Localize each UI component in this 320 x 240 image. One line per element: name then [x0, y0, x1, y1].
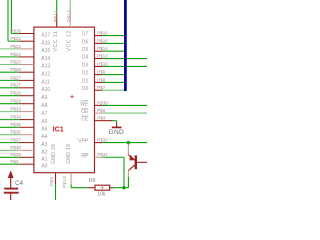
transistor emitter lead [127, 171, 129, 177]
wire net P$38 [0, 149, 19, 151]
wire net D3 through bus [102, 65, 147, 67]
ground bar [112, 126, 122, 128]
wire net P$22 vertical [7, 0, 9, 41]
pin P$29 (A8) stub [19, 103, 34, 105]
pin P$11 (VCC1) stub [56, 14, 58, 28]
wire net P$3 [0, 163, 19, 165]
svg-text:A3: A3 [41, 142, 47, 148]
svg-text:P$19: P$19 [10, 28, 21, 33]
svg-text:P$13: P$13 [97, 53, 108, 58]
svg-text:A15: A15 [41, 48, 50, 54]
pin P$35 (A5) stub [19, 126, 34, 128]
capacitor C4 lead upper [10, 177, 12, 188]
pin P$16 (D7) stub [95, 35, 103, 37]
svg-text:A5: A5 [41, 127, 47, 133]
wire net P$26 [0, 71, 19, 73]
svg-text:P$33: P$33 [10, 107, 21, 112]
svg-text:P$25: P$25 [10, 59, 21, 64]
svg-text:CE: CE [81, 117, 89, 123]
wire emitter down [127, 177, 129, 188]
wire net P$36 [0, 134, 19, 136]
svg-text:P$38: P$38 [10, 145, 21, 150]
wire net P$39 [0, 156, 19, 158]
svg-text:P$15: P$15 [97, 38, 108, 43]
svg-text:P$27: P$27 [10, 75, 21, 80]
svg-text:R9: R9 [89, 178, 96, 184]
svg-text:VCC 12: VCC 12 [67, 30, 73, 51]
overbar OE [82, 107, 89, 109]
bus [124, 0, 127, 91]
svg-text:VCC 11: VCC 11 [53, 31, 59, 52]
svg-text:A9: A9 [41, 95, 47, 101]
pin P$31 (RP) stub [95, 156, 103, 158]
svg-text:D4: D4 [82, 55, 89, 61]
capacitor C4 plate 1 [4, 188, 18, 190]
wire net D7 to bus [102, 35, 125, 37]
wire net P$24 [0, 56, 19, 58]
svg-text:A6: A6 [41, 119, 47, 125]
pin P$23 (A15) stub [19, 48, 34, 50]
svg-text:A16: A16 [41, 40, 50, 46]
ground supply pin [116, 122, 118, 127]
pin P$9 (D2) stub [95, 74, 103, 76]
svg-text:P$12: P$12 [67, 10, 72, 22]
svg-text:A11: A11 [41, 80, 50, 86]
transistor collector diagonal [128, 155, 134, 160]
pin P$10 (D3) stub [95, 65, 103, 67]
svg-text:P$9: P$9 [97, 70, 106, 75]
svg-text:P$26: P$26 [10, 67, 21, 72]
wire net VPP [102, 142, 147, 144]
svg-text:P$18: P$18 [62, 176, 67, 188]
svg-text:A4: A4 [41, 134, 47, 140]
wire net VCC2 (faint) [69, 0, 71, 14]
svg-text:2: 2 [0, 181, 1, 187]
wire net P$28 [0, 95, 19, 97]
wire R9 right to junction [113, 187, 124, 189]
pin P$5 (GND) stub [55, 173, 57, 185]
pin P$36 (A4) stub [19, 134, 34, 136]
svg-text:D3: D3 [82, 62, 89, 68]
svg-text:A10: A10 [41, 87, 50, 93]
svg-text:D2: D2 [82, 71, 89, 77]
origin cross IC1 [70, 95, 74, 99]
wire collector to VPP net [127, 143, 129, 145]
svg-text:D7: D7 [82, 32, 89, 38]
svg-text:P$39: P$39 [10, 152, 21, 157]
pin P$38 (A2) stub [19, 149, 34, 151]
svg-text:P$10: P$10 [97, 61, 108, 66]
wire net P$19 [11, 33, 18, 35]
pin P$32 (VPP) stub [95, 142, 103, 144]
svg-text:P$11: P$11 [53, 10, 58, 22]
svg-text:P$24: P$24 [10, 52, 21, 57]
svg-text:P$6: P$6 [97, 108, 106, 113]
resistor R9 left lead [88, 187, 96, 189]
junction node RP/R9/emitter [122, 186, 125, 189]
transistor Q1 collector lead [127, 145, 129, 155]
svg-text:A17: A17 [41, 33, 50, 39]
junction node VPP/collector [127, 141, 130, 144]
wire net D2 to bus [102, 74, 125, 76]
wire net GND down [55, 184, 57, 200]
wire net D4 through bus [102, 58, 147, 60]
svg-text:P$22: P$22 [10, 36, 21, 41]
wire net P$37 [0, 142, 19, 144]
pin P$34 (A6) stub [19, 119, 34, 121]
pin P$28 (A9) stub [19, 95, 34, 97]
svg-text:P$30: P$30 [97, 100, 108, 105]
svg-text:D5: D5 [82, 47, 89, 53]
svg-text:P$7: P$7 [97, 85, 106, 90]
pin P$13 (D4) stub [95, 58, 103, 60]
overbar RP [83, 152, 89, 154]
transistor base lead [137, 161, 147, 163]
IC U1 (IC1) body outline [34, 27, 95, 173]
wire net P$34 [0, 119, 19, 121]
svg-text:P$35: P$35 [10, 122, 21, 127]
svg-text:A14: A14 [41, 56, 50, 62]
wire net P$35 [0, 126, 19, 128]
svg-text:D0: D0 [82, 86, 89, 92]
wire net D1 to bus [102, 81, 125, 83]
pin P$14 (D5) stub [95, 50, 103, 52]
svg-text:A2: A2 [41, 150, 47, 156]
wire net P$23 [0, 48, 19, 50]
wire net WE [102, 104, 147, 106]
pin P$15 (D6) stub [95, 42, 103, 44]
pin P$19 (A17) stub [19, 33, 34, 35]
wire net P$25 [0, 64, 19, 66]
wire net P$33 [0, 111, 19, 113]
capacitor C4 lead lower [10, 194, 12, 200]
svg-text:P$28: P$28 [10, 91, 21, 96]
svg-text:A1: A1 [41, 157, 47, 163]
svg-text:P$16: P$16 [97, 31, 108, 36]
wire down to GND pin [116, 121, 118, 123]
pin P$33 (A7) stub [19, 111, 34, 113]
svg-text:P$14: P$14 [97, 46, 108, 51]
svg-text:GND 26: GND 26 [51, 144, 57, 164]
svg-text:P$8: P$8 [97, 77, 106, 82]
wire net D0 to bus [102, 89, 125, 91]
svg-text:D6: D6 [82, 39, 89, 45]
capacitor C4 plate 2 [4, 192, 19, 194]
transistor arrow [130, 155, 135, 160]
transistor base bar [135, 155, 137, 169]
wire net VCC1 [56, 0, 58, 14]
pin P$7 (D0) stub [95, 89, 103, 91]
supply arrow above C4 [8, 171, 13, 178]
wire net P$17 [0, 87, 19, 89]
svg-text:P$4: P$4 [97, 116, 106, 121]
resistor R9 right lead [110, 187, 114, 189]
svg-text:C4: C4 [15, 180, 24, 187]
svg-text:P$17: P$17 [10, 83, 21, 88]
svg-text:P$32: P$32 [97, 138, 108, 143]
wire to R9 left lead [71, 187, 87, 189]
pin P$4 (CE) stub [95, 120, 113, 122]
svg-text:GND: GND [109, 129, 125, 136]
wire emitter to junction [124, 187, 128, 189]
svg-text:A7: A7 [41, 111, 47, 117]
wire net P$29 [0, 103, 19, 105]
wire net to R9 [70, 184, 72, 188]
svg-text:GND 18: GND 18 [66, 144, 72, 164]
svg-text:A0: A0 [41, 163, 47, 169]
wire net P$19 vertical [10, 0, 12, 34]
svg-text:10k: 10k [97, 192, 106, 198]
wire RP down [123, 157, 125, 187]
wire CE to GND [113, 120, 117, 122]
overbar WE [81, 100, 89, 102]
svg-text:D1: D1 [82, 78, 89, 84]
svg-text:P$3: P$3 [10, 159, 19, 164]
svg-text:OE: OE [81, 109, 89, 115]
wire net D5 to bus [102, 50, 125, 52]
svg-text:IC1: IC1 [53, 125, 64, 134]
svg-text:RP: RP [81, 153, 89, 159]
origin cross R9 [100, 186, 104, 190]
svg-text:P$36: P$36 [10, 130, 21, 135]
pin P$37 (A3) stub [19, 142, 34, 144]
pin P$27 (A11) stub [19, 79, 34, 81]
wire net RP [102, 156, 124, 158]
svg-text:P$23: P$23 [10, 44, 21, 49]
svg-text:A12: A12 [41, 71, 50, 77]
svg-text:P$34: P$34 [10, 115, 21, 120]
wire net P$22 [8, 40, 19, 42]
svg-text:A8: A8 [41, 103, 47, 109]
wire net D6 to bus [102, 42, 125, 44]
svg-text:P$5: P$5 [49, 177, 54, 186]
pin P$6 (OE) stub [95, 112, 103, 114]
resistor R9 body [95, 185, 110, 190]
transistor emitter diagonal [128, 165, 134, 171]
pin P$8 (D1) stub [95, 81, 103, 83]
pin P$24 (A14) stub [19, 56, 34, 58]
pin P$25 (A13) stub [19, 64, 34, 66]
pin P$22 (A16) stub [19, 40, 34, 42]
svg-text:A13: A13 [41, 64, 50, 70]
pin P$26 (A12) stub [19, 71, 34, 73]
wire net OE (faint) [102, 112, 147, 114]
pin P$3 (A0) stub [19, 163, 34, 165]
overbar CE [82, 115, 89, 117]
wire net P$27 [0, 79, 19, 81]
svg-text:P$31: P$31 [97, 152, 108, 157]
pin P$30 (WE) stub [95, 104, 103, 106]
svg-text:P$29: P$29 [10, 99, 21, 104]
pin P$12 (VCC2) stub [69, 14, 71, 28]
svg-text:P$37: P$37 [10, 138, 21, 143]
svg-text:VPP: VPP [78, 139, 89, 145]
pin P$39 (A1) stub [19, 156, 34, 158]
svg-text:WE: WE [80, 101, 89, 107]
pin P$17 (A10) stub [19, 87, 34, 89]
pin P$18 (GND) stub [70, 173, 72, 185]
